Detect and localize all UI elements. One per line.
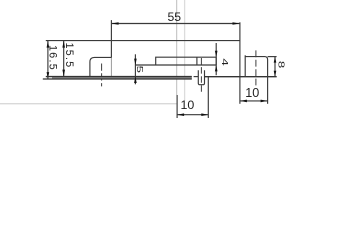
arrow 16.5 top [47, 41, 50, 48]
svg-text:10: 10 [245, 86, 259, 100]
plate bottom surface H6 [43, 78, 192, 80]
dimension 10 bottom-left line [177, 114, 208, 116]
arrow 16.5 bottom [47, 72, 50, 79]
wire: box right edge extension down x=267.6 [267, 77, 269, 104]
arrow 8 bottom [274, 71, 277, 77]
dimension 8 line [274, 57, 276, 77]
centerline box axis x=255.9 [255, 50, 257, 86]
dimension 10 right line [240, 100, 268, 102]
dimension 4 line [215, 43, 217, 75]
arrow 10R left [240, 100, 247, 103]
dimension 55 line [111, 23, 239, 25]
faint vertical line at x=184.6 [184, 0, 186, 101]
wire: 10-dim left extension (dark lower part of axis) [176, 95, 178, 118]
centerline hook axis x=101.6 [101, 64, 103, 87]
svg-text:16.5: 16.5 [47, 45, 59, 71]
wire: 10L right extension x=208.3 [207, 77, 209, 118]
step profile: riser and top edge [156, 57, 217, 65]
arrow 10L left [177, 113, 184, 116]
svg-text:10: 10 [181, 98, 195, 112]
arrow 5 top (down into 65) [134, 59, 137, 65]
hook profile left (rounded corner tab) [90, 57, 112, 79]
svg-text:5: 5 [135, 66, 144, 73]
arrow 5 bottom (up into 76.6) [134, 77, 137, 83]
svg-text:15.5: 15.5 [63, 43, 75, 69]
node V4 left extension vertical x=111.4 [110, 20, 112, 58]
dimension 5 line [134, 54, 136, 84]
svg-text:8: 8 [276, 61, 285, 68]
plate band fill [52, 77, 192, 80]
centerline U-notch axis x=201.4 [200, 58, 202, 93]
top reference line H2 [46, 40, 240, 42]
plate stub left of U-notch [194, 76, 199, 78]
faint horizontal table line [0, 103, 177, 105]
step mid line y=65 [135, 64, 216, 66]
right box profile (end lug) [245, 55, 267, 77]
svg-text:4: 4 [220, 58, 229, 65]
plate top surface H5 [46, 76, 192, 78]
svg-text:55: 55 [168, 10, 182, 24]
arrow 55 right [233, 22, 240, 25]
arrow 4 top (down into 57.2) [215, 51, 218, 57]
internal edge x=196.9 [196, 57, 198, 65]
step right edge [215, 57, 217, 65]
arrow 8 top [274, 57, 277, 63]
centerline part axis x=176.7 [176, 0, 178, 95]
arrow 10R right [261, 100, 268, 103]
arrow 4 bottom (up into 65) [215, 65, 218, 71]
U-notch hanging tab [198, 70, 204, 84]
arrow 55 left [111, 22, 118, 25]
arrow 15.5 bottom [62, 70, 65, 77]
baseline right section y=76.7 [205, 76, 277, 78]
dimension 16.5 line [47, 41, 49, 80]
node V5 right extension vertical x=239.9 [239, 22, 241, 104]
box top extension to 8-dim [268, 56, 277, 58]
dimension 15.5 line [63, 41, 65, 77]
arrow 10L right [201, 113, 208, 116]
arrow 15.5 top [62, 41, 65, 48]
